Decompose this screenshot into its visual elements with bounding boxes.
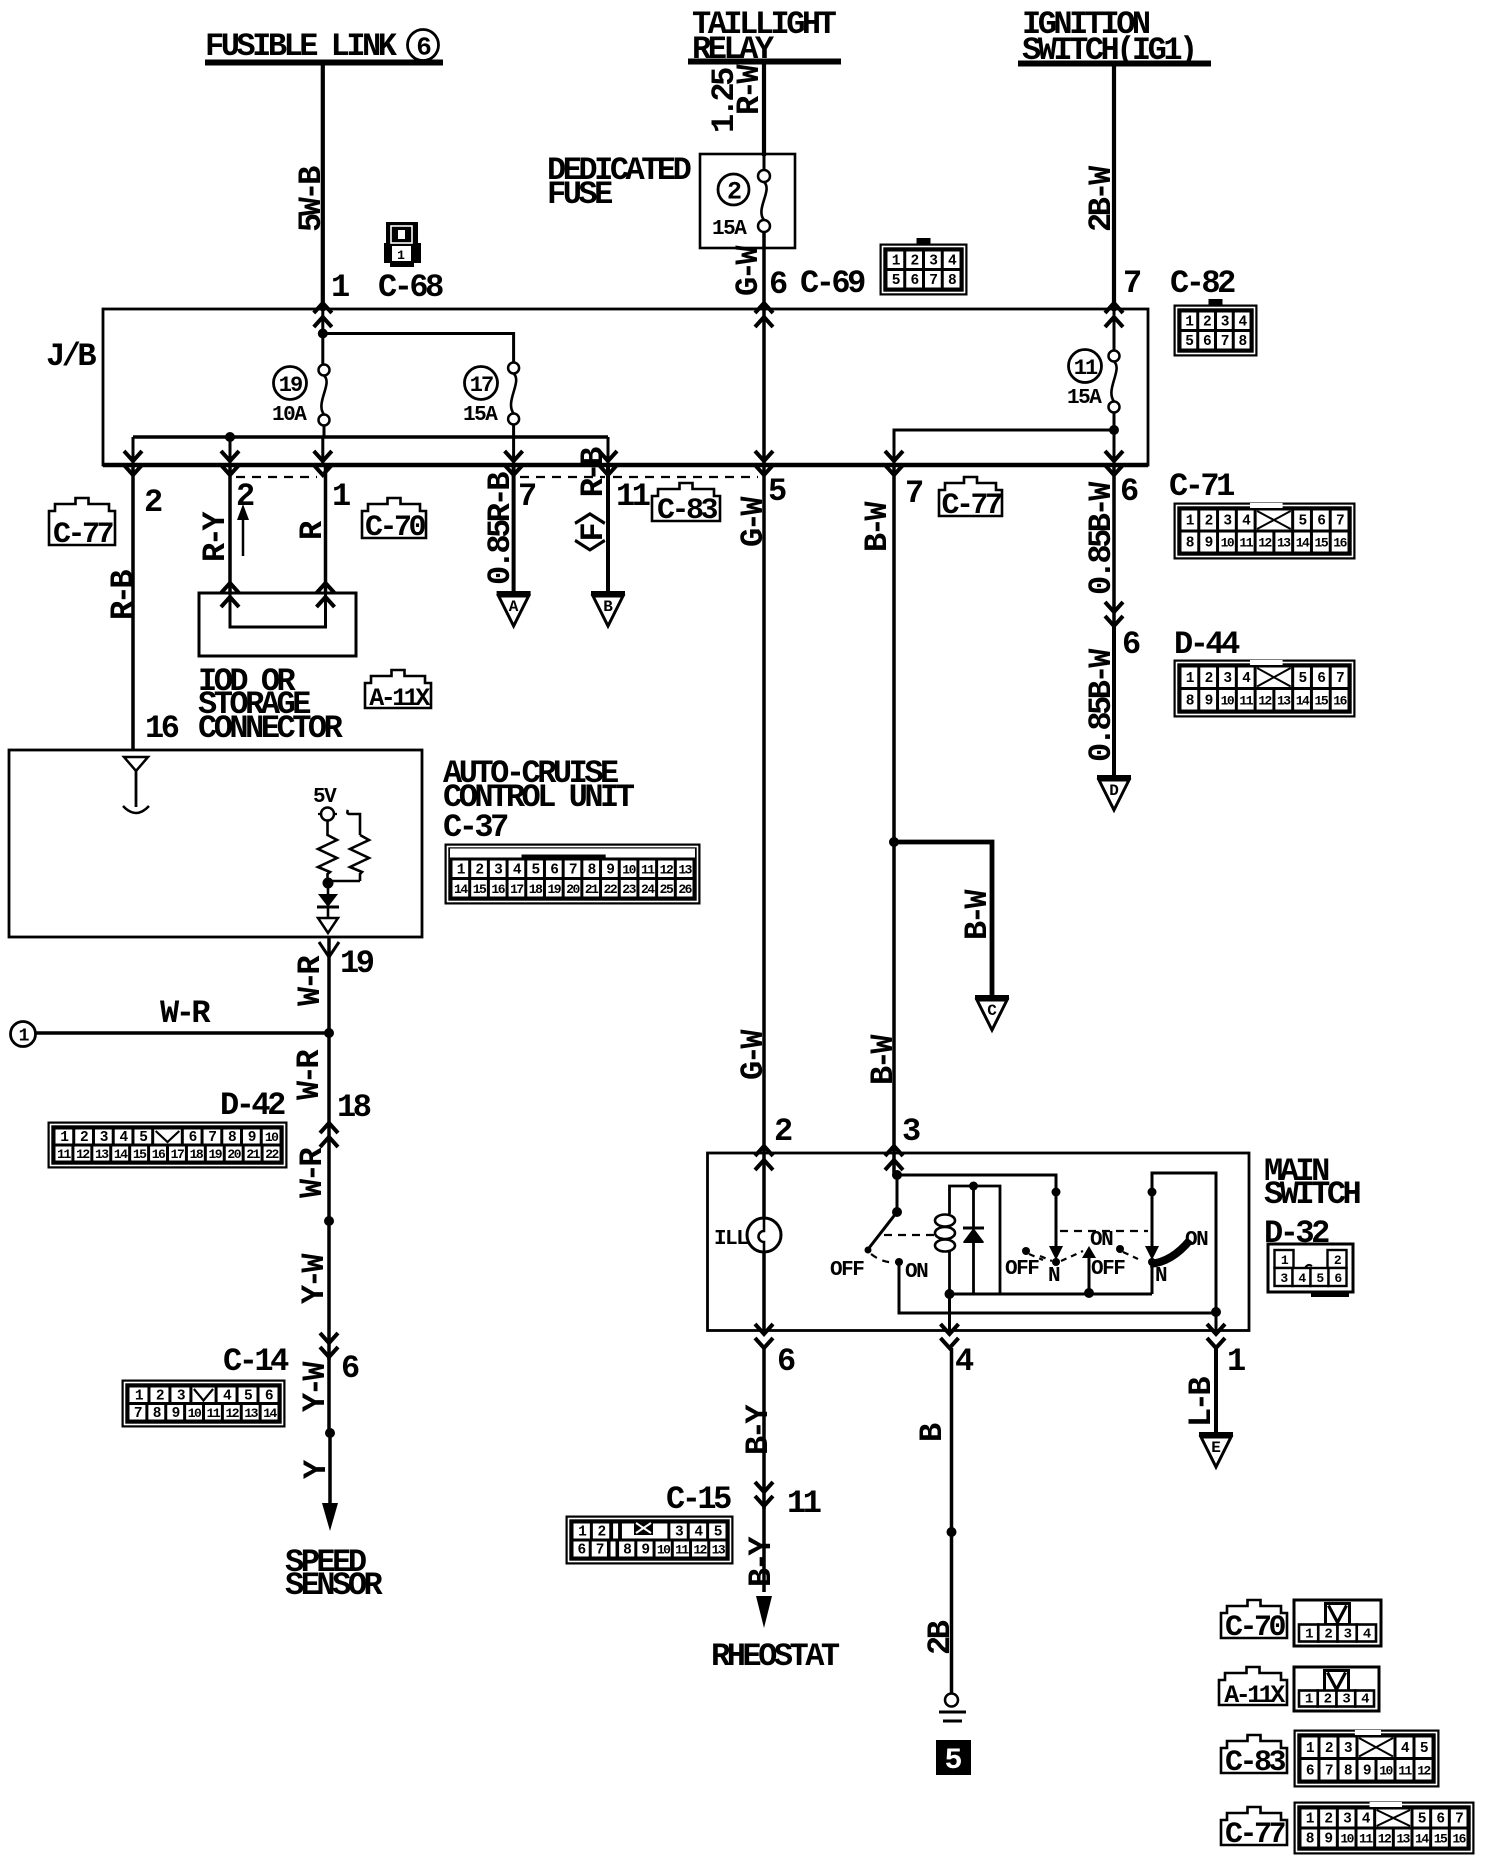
wire G-W through J/B: [762, 311, 766, 465]
svg-text:6: 6: [911, 273, 919, 289]
svg-text:C-82: C-82: [1170, 265, 1235, 302]
mechanical link dashed (left): [884, 1234, 938, 1236]
svg-text:C-15: C-15: [666, 1481, 731, 1518]
dashed throw arc to ON: [871, 1254, 897, 1262]
wire B-Y pin6 down: [740, 1348, 777, 1509]
connector C-82 icon: [1174, 299, 1257, 356]
diode inside unit: [317, 883, 339, 917]
dedicated fuse box: [700, 154, 795, 248]
wire fuse17 output to bus: [512, 424, 515, 437]
tail lamp switch lever pivot: [1052, 1188, 1061, 1197]
illumination lamp: [747, 1153, 781, 1330]
svg-text:13: 13: [95, 1147, 109, 1162]
terminal symbol pin 16: [123, 757, 149, 813]
svg-text:7: 7: [1336, 514, 1344, 530]
svg-text:4: 4: [1363, 1627, 1371, 1643]
svg-text:8: 8: [228, 1130, 236, 1146]
wire bus drop 11 (F R-B): [607, 437, 610, 465]
svg-text:2B: 2B: [922, 1620, 959, 1655]
node junction below resistors: [323, 878, 334, 889]
svg-text:3: 3: [929, 253, 937, 269]
svg-text:4: 4: [1361, 1692, 1369, 1708]
svg-text:7: 7: [208, 1130, 216, 1146]
fuse 11 circled number: [1069, 350, 1102, 383]
svg-text:8: 8: [153, 1406, 161, 1422]
wire bus drop 2 (R-B): [132, 437, 135, 465]
ground A: [497, 594, 531, 627]
ground C: [975, 998, 1009, 1031]
connector C-71 label: [1169, 468, 1234, 505]
connector C-70 tag (list): [1221, 1600, 1287, 1645]
wire G-W pin5 down to main switch: [735, 465, 772, 1153]
svg-text:18: 18: [190, 1147, 204, 1162]
label RHEOSTAT: [711, 1638, 840, 1675]
svg-text:3: 3: [902, 1113, 920, 1150]
svg-text:2B-W: 2B-W: [1083, 165, 1120, 232]
wire B-W into switch to feed node: [892, 1153, 896, 1175]
svg-text:19: 19: [208, 1147, 222, 1162]
svg-text:2: 2: [774, 1113, 792, 1150]
svg-text:Y-W: Y-W: [296, 1253, 333, 1304]
svg-text:5: 5: [892, 273, 900, 289]
wire N contact to bottom rail (head): [1151, 1262, 1154, 1294]
head lamp lever arrow at N: [1145, 1192, 1159, 1260]
connector A-11X tag: [365, 670, 431, 713]
connector D-32 label: [1264, 1215, 1329, 1252]
svg-text:10: 10: [1221, 693, 1235, 708]
svg-text:13: 13: [712, 1543, 726, 1558]
label J/B: [46, 338, 96, 375]
svg-text:2: 2: [1324, 1812, 1332, 1828]
ground B: [591, 594, 625, 627]
connector C-15 label: [666, 1481, 731, 1518]
wire W-R to connector D-42: [291, 1033, 329, 1140]
connector chevrons main switch pin 6: [755, 1324, 773, 1348]
svg-text:2: 2: [1203, 314, 1211, 330]
svg-text:3: 3: [494, 862, 502, 878]
wire B-W pin7 down to main switch: [859, 465, 902, 1153]
svg-text:B-W: B-W: [859, 501, 896, 552]
ground D: [1097, 778, 1131, 811]
node IGNITION SWITCH(IG1) title: [1018, 6, 1211, 69]
wire bus drop 1 (R): [321, 437, 324, 465]
svg-text:J/B: J/B: [46, 338, 96, 375]
pin 2 label (R-B): [144, 484, 162, 521]
svg-text:8: 8: [948, 273, 956, 289]
contact N (tail): [1052, 1258, 1060, 1266]
connector C-83 tag: [652, 483, 720, 528]
value 15A fuse 11: [1067, 387, 1102, 410]
svg-text:18: 18: [337, 1089, 371, 1126]
contact arrow ON (tail): [1082, 1246, 1096, 1293]
label AUTO-CRUISE CONTROL UNIT: [443, 755, 635, 816]
svg-text:11: 11: [616, 478, 650, 515]
wire B pin4 down: [914, 1348, 959, 1694]
connector C-37 label: [443, 809, 508, 846]
svg-text:21: 21: [585, 882, 599, 897]
svg-text:W-R: W-R: [160, 995, 211, 1032]
5V supply node circle: [318, 808, 337, 821]
node junction Y-W/Y: [325, 1428, 335, 1438]
label ON (tail contact): [1090, 1229, 1113, 1252]
svg-text:A-11X: A-11X: [369, 684, 430, 713]
node junction at output 1: [1211, 1307, 1221, 1317]
svg-text:8: 8: [623, 1543, 631, 1559]
dashed link N to OFF: [1040, 1256, 1052, 1261]
pin 2 label (R-Y): [236, 478, 254, 515]
svg-text:C-77: C-77: [1225, 1818, 1285, 1852]
wire Y to speed sensor: [298, 1433, 335, 1516]
svg-text:15: 15: [1315, 693, 1329, 708]
svg-text:12: 12: [693, 1543, 707, 1558]
svg-text:22: 22: [604, 882, 618, 897]
svg-text:10: 10: [1379, 1763, 1393, 1778]
contact OFF (tail) with dashed tail: [1022, 1247, 1043, 1260]
svg-text:1: 1: [1305, 1692, 1313, 1708]
svg-text:A-11X: A-11X: [1224, 1681, 1285, 1710]
dashed connector grouping line middle: [520, 476, 605, 478]
svg-text:9: 9: [1205, 536, 1213, 552]
svg-text:C-68: C-68: [378, 269, 443, 306]
node junction W-R/Y-W: [324, 1216, 334, 1226]
wire R-B pin2 to auto-cruise pin16: [105, 465, 142, 750]
svg-text:14: 14: [114, 1147, 128, 1162]
svg-text:5: 5: [1298, 671, 1306, 687]
node circled 1: [11, 1022, 36, 1047]
node bottom rail junction (ON arrow): [1084, 1288, 1094, 1298]
wire bottom rail (coil side): [950, 1293, 1153, 1296]
svg-text:10: 10: [188, 1406, 202, 1421]
svg-text:C-70: C-70: [365, 511, 426, 545]
svg-text:ON: ON: [905, 1261, 928, 1284]
connector C-14 pass-through chevrons: [320, 1333, 338, 1357]
pin 3 label main switch: [902, 1113, 920, 1150]
connector D-42 label: [220, 1087, 285, 1124]
svg-text:19: 19: [340, 945, 374, 982]
fuse 11 element: [1109, 311, 1120, 465]
wire W-R pin 19 down: [327, 937, 331, 1032]
svg-text:19: 19: [279, 373, 302, 398]
connector C-14 icon: [122, 1380, 285, 1427]
svg-text:3: 3: [1221, 314, 1229, 330]
node junction bus at R-Y tap: [225, 432, 235, 442]
svg-text:5V: 5V: [313, 786, 337, 809]
svg-text:2: 2: [727, 178, 741, 207]
svg-text:R-Y: R-Y: [197, 511, 234, 562]
connector D-44 icon: [1174, 660, 1355, 717]
junction block J/B box: [103, 309, 1148, 465]
splice fork at pin 19: [319, 942, 339, 957]
svg-text:2: 2: [144, 484, 162, 521]
connector chevrons at J/B top pin 6: [755, 303, 773, 327]
node TAILLIGHT RELAY title: [688, 6, 841, 68]
node junction B-W branch: [889, 837, 899, 847]
svg-text:E: E: [1211, 1439, 1221, 1457]
svg-text:7: 7: [905, 475, 923, 512]
svg-text:9: 9: [1324, 1832, 1332, 1848]
svg-text:8: 8: [1186, 536, 1194, 552]
connector D-44 label: [1174, 626, 1240, 663]
wire 0.85B-W pin6 to D-44: [1083, 465, 1120, 630]
wire R-Y to IOD connector: [197, 465, 234, 593]
svg-text:17: 17: [470, 373, 493, 398]
svg-text:D-44: D-44: [1174, 626, 1240, 663]
pin 6 label at C-14: [341, 1350, 359, 1387]
switch lever (lighting) pointing OFF: [865, 1212, 898, 1254]
connector chevrons at J/B bottom pin 11: [599, 451, 617, 475]
svg-text:N: N: [1155, 1265, 1167, 1288]
connector C-82 label: [1170, 265, 1235, 302]
svg-text:6: 6: [769, 266, 787, 303]
value 15A fuse 17: [463, 404, 498, 427]
svg-text:3: 3: [1223, 514, 1231, 530]
wire 0.85R-B to ground A: [482, 465, 519, 592]
svg-text:2: 2: [475, 862, 483, 878]
svg-text:R-B: R-B: [105, 570, 142, 620]
fuse 2 element 15A: [758, 154, 770, 311]
svg-text:B-W: B-W: [959, 889, 996, 940]
wire fuse19 output to bus: [323, 425, 326, 437]
connector A-11X tag (list): [1219, 1667, 1287, 1710]
node coil top junction: [969, 1182, 978, 1191]
svg-text:1: 1: [1227, 1343, 1245, 1380]
svg-text:2: 2: [1324, 1627, 1332, 1643]
svg-text:7: 7: [1455, 1812, 1463, 1828]
svg-text:FUSE: FUSE: [547, 176, 612, 213]
pin 2 label main switch: [774, 1113, 792, 1150]
label ON (head): [1185, 1229, 1208, 1252]
dashed connector grouping line left: [236, 476, 317, 478]
svg-text:3: 3: [675, 1525, 683, 1541]
svg-text:C-14: C-14: [223, 1343, 289, 1380]
svg-text:5: 5: [714, 1525, 722, 1541]
svg-text:9: 9: [172, 1406, 180, 1422]
pin 11 label at C-15: [787, 1485, 821, 1522]
arrow to speed sensor: [322, 1503, 338, 1531]
contact dot with dashed tail (mid): [1116, 1245, 1138, 1259]
connector chevrons at J/B bottom pin 2 R-Y: [221, 451, 239, 475]
svg-text:11: 11: [675, 1543, 689, 1558]
svg-text:3: 3: [1344, 1741, 1352, 1757]
svg-text:C-69: C-69: [800, 265, 865, 302]
svg-text:5: 5: [139, 1130, 147, 1146]
svg-text:C-77: C-77: [941, 489, 1001, 523]
pin 6 label (0.85B-W): [1120, 473, 1138, 510]
label ILL: [714, 1228, 748, 1251]
svg-text:3: 3: [1343, 1812, 1351, 1828]
wire 1.25R-W from taillight relay: [706, 62, 768, 156]
pin 11 label: [616, 478, 650, 515]
svg-text:13: 13: [1277, 536, 1291, 551]
svg-text:OFF: OFF: [1091, 1258, 1125, 1281]
connector C-15 icon: [566, 1516, 733, 1564]
connector C-77 tag (B-W): [939, 477, 1002, 523]
label SPEED SENSOR: [285, 1544, 384, 1604]
svg-text:G-W: G-W: [735, 496, 772, 547]
arrow to rheostat: [756, 1596, 772, 1628]
connector A-11X icon (list): [1294, 1667, 1379, 1711]
svg-text:2: 2: [1325, 1741, 1333, 1757]
svg-text:5: 5: [532, 862, 540, 878]
svg-text:6: 6: [1203, 334, 1211, 350]
svg-text:C: C: [987, 1002, 997, 1020]
output terminal pin 19 arrow: [318, 918, 338, 933]
svg-text:20: 20: [227, 1147, 241, 1162]
svg-text:1: 1: [332, 478, 350, 515]
wire label W-R: [292, 955, 329, 1006]
pin 6 label main switch: [777, 1343, 795, 1380]
svg-text:22: 22: [265, 1147, 279, 1162]
wire from junction to fuse 17: [323, 334, 514, 363]
label N (head): [1155, 1265, 1167, 1288]
svg-text:7: 7: [569, 862, 577, 878]
svg-text:9: 9: [1205, 693, 1213, 709]
connector C-70 tag: [362, 498, 426, 545]
pin 1 label at C-68: [331, 269, 349, 306]
svg-text:3: 3: [1342, 1692, 1350, 1708]
svg-text:11: 11: [787, 1485, 821, 1522]
head lamp switch top loop: [1152, 1173, 1216, 1312]
connector C-83 tag (list): [1221, 1735, 1287, 1780]
dashed link N to ON: [1061, 1251, 1083, 1261]
wire bus bar inside J/B: [133, 435, 608, 439]
svg-text:2: 2: [911, 253, 919, 269]
svg-text:13: 13: [678, 862, 692, 877]
fuse 17 element: [508, 363, 519, 425]
wire feed top rail: [897, 1175, 1056, 1192]
svg-text:3: 3: [1223, 671, 1231, 687]
svg-text:17: 17: [510, 882, 523, 897]
svg-text:2: 2: [156, 1388, 164, 1404]
wire coil right leg: [974, 1186, 1001, 1293]
pin 7 label (B-W): [905, 475, 923, 512]
svg-text:ON: ON: [1185, 1229, 1208, 1252]
connector D-42 pass-through chevrons: [320, 1123, 338, 1147]
svg-text:9: 9: [606, 862, 614, 878]
label OFF (below): [1091, 1258, 1125, 1281]
connector C-83 icon (list): [1294, 1730, 1439, 1787]
svg-text:8: 8: [1239, 334, 1247, 350]
connector chevrons main switch pin 3: [885, 1146, 903, 1170]
svg-text:17: 17: [171, 1147, 184, 1162]
svg-text:10: 10: [657, 1543, 671, 1558]
pin 6 label at D-44: [1122, 626, 1140, 663]
svg-text:9: 9: [248, 1130, 256, 1146]
svg-text:1: 1: [1305, 1627, 1313, 1643]
svg-text:G-W: G-W: [730, 245, 767, 296]
svg-text:11: 11: [1074, 356, 1098, 381]
node junction on 5W-B inside J/B: [318, 329, 328, 339]
svg-text:15: 15: [473, 882, 487, 897]
svg-text:11: 11: [1239, 693, 1253, 708]
svg-text:6: 6: [1306, 1763, 1314, 1779]
wire junction down to fuse 19: [321, 311, 324, 364]
svg-text:B-Y: B-Y: [743, 1536, 780, 1587]
svg-text:12: 12: [1378, 1832, 1392, 1847]
resistor R right: [328, 810, 369, 881]
svg-text:6: 6: [550, 862, 558, 878]
svg-text:6: 6: [189, 1130, 197, 1146]
pin 1 label (R): [332, 478, 350, 515]
svg-text:11: 11: [1398, 1763, 1412, 1778]
svg-text:16: 16: [152, 1147, 166, 1162]
svg-text:8: 8: [1306, 1832, 1314, 1848]
value 15A dedicated fuse: [712, 218, 747, 241]
connector chevrons at J/B top pin 1: [314, 303, 332, 327]
connector C-37 icon: [445, 844, 700, 904]
svg-text:6: 6: [1436, 1812, 1444, 1828]
svg-text:ILL: ILL: [714, 1228, 748, 1251]
svg-text:6: 6: [341, 1350, 359, 1387]
connector C-77 tag (list): [1221, 1807, 1287, 1852]
pin 19 label: [340, 945, 374, 982]
wire Y-W below C-14: [297, 1357, 334, 1433]
current direction arrow on R-Y: [237, 504, 249, 556]
connector C-77 icon (list): [1294, 1802, 1474, 1854]
svg-text:16: 16: [145, 710, 179, 747]
svg-text:2: 2: [597, 1525, 605, 1541]
svg-text:6: 6: [1122, 626, 1140, 663]
svg-text:B: B: [914, 1423, 951, 1442]
svg-text:2: 2: [1324, 1692, 1332, 1708]
node coil bottom junction: [945, 1289, 955, 1299]
connector C-68 label: [378, 269, 443, 306]
svg-text:B: B: [603, 598, 613, 616]
svg-text:14: 14: [1296, 693, 1310, 708]
wire F R-B to ground B: [574, 447, 612, 592]
svg-text:1: 1: [331, 269, 349, 306]
svg-text:5: 5: [1298, 514, 1306, 530]
head lamp lever pivot: [1148, 1188, 1157, 1197]
label OFF (tail): [1005, 1258, 1039, 1281]
contact ON (lighting): [895, 1258, 903, 1266]
wire Y-W to C-14: [296, 1221, 333, 1360]
connector chevrons at J/B bottom pin 7 B-W: [885, 451, 903, 475]
svg-text:0.85B-W: 0.85B-W: [1083, 481, 1120, 595]
wire feed down to lever pivot: [896, 1175, 899, 1212]
pin 4 label main switch: [955, 1343, 974, 1380]
svg-text:24: 24: [641, 882, 655, 897]
svg-text:2: 2: [1205, 671, 1213, 687]
ground E: [1199, 1435, 1233, 1468]
thick lever arc to ON (head): [1150, 1240, 1190, 1264]
svg-text:OFF: OFF: [1005, 1258, 1039, 1281]
node switch feed junction: [892, 1170, 902, 1180]
svg-text:18: 18: [529, 882, 543, 897]
connector D-42 icon: [48, 1122, 287, 1168]
svg-text:12: 12: [76, 1147, 90, 1162]
svg-text:6: 6: [1317, 514, 1325, 530]
svg-text:20: 20: [566, 882, 580, 897]
node junction on B wire: [947, 1527, 957, 1537]
auto-cruise control unit box: [9, 750, 422, 937]
chassis ground terminal: [939, 1694, 966, 1722]
svg-text:12: 12: [660, 862, 674, 877]
pin 5 label (G-W): [768, 473, 786, 510]
pin 1 label main switch: [1227, 1343, 1245, 1380]
wire pin1 exit: [1215, 1312, 1218, 1330]
svg-text:C-37: C-37: [443, 809, 508, 846]
svg-text:7: 7: [1325, 1763, 1333, 1779]
ground point 5 box: [936, 1740, 971, 1778]
pin 6 label at C-69: [769, 266, 787, 303]
svg-text:14: 14: [1296, 536, 1310, 551]
svg-text:19: 19: [548, 882, 562, 897]
svg-text:G-W: G-W: [735, 1029, 772, 1080]
svg-text:26: 26: [678, 882, 692, 897]
svg-text:13: 13: [1396, 1832, 1410, 1847]
svg-text:L-B: L-B: [1183, 1377, 1220, 1427]
